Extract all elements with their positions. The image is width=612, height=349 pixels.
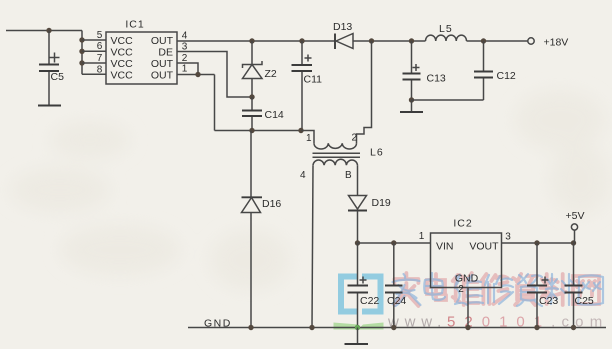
wire secondary pin3 down — [357, 165, 359, 195]
svg-text:C25: C25 — [575, 295, 594, 307]
svg-text:DE: DE — [158, 47, 173, 59]
svg-text:D13: D13 — [333, 21, 352, 33]
node pin6 — [79, 49, 84, 54]
svg-text:VCC: VCC — [111, 47, 134, 59]
node C25 top — [571, 240, 576, 245]
wire pin3 DE route — [177, 52, 252, 98]
inductor L5 — [426, 23, 467, 41]
svg-text:OUT: OUT — [151, 70, 174, 82]
svg-text:+18V: +18V — [544, 37, 569, 49]
svg-text:C11: C11 — [304, 74, 323, 86]
wire IC2 output rail — [502, 242, 574, 244]
node pin5 — [79, 37, 84, 42]
IC IC2 — [431, 218, 502, 288]
capacitor C5 — [39, 31, 64, 106]
node C25 bottom — [571, 325, 576, 330]
svg-text:C13: C13 — [427, 73, 446, 85]
wire top rail right of D13 — [353, 40, 528, 42]
node C23 top — [534, 240, 539, 245]
svg-text:C14: C14 — [265, 109, 284, 121]
svg-text:VCC: VCC — [111, 35, 134, 47]
svg-text:2: 2 — [352, 133, 358, 144]
IC IC1 — [106, 19, 177, 85]
wire pin5 stub — [82, 39, 106, 41]
svg-text:2: 2 — [458, 284, 464, 295]
svg-text:OUT: OUT — [151, 35, 174, 47]
node C23 bottom — [534, 325, 539, 330]
wire secondary pin4 down — [312, 165, 313, 327]
svg-text:8: 8 — [97, 64, 103, 75]
svg-text:7: 7 — [97, 53, 103, 64]
svg-text:IC2: IC2 — [453, 218, 472, 230]
ground bar below C5 — [38, 105, 61, 107]
capacitor C12 — [474, 41, 516, 100]
capacitor C22 — [348, 243, 380, 328]
svg-text:+5V: +5V — [566, 210, 585, 222]
capacitor C25 — [565, 243, 594, 328]
svg-text:VCC: VCC — [111, 70, 134, 82]
svg-text:1: 1 — [419, 231, 425, 242]
wire IC2 input rail — [358, 242, 431, 244]
svg-text:C23: C23 — [539, 295, 558, 307]
svg-text:VIN: VIN — [436, 241, 454, 253]
wire pin2 — [177, 63, 198, 75]
node C13 bottom — [409, 97, 414, 102]
ground below C13 — [411, 100, 413, 112]
svg-text:D16: D16 — [262, 198, 281, 210]
svg-text:L5: L5 — [439, 23, 453, 35]
svg-text:5: 5 — [97, 30, 103, 41]
node pin1/pin2 junction — [195, 72, 200, 77]
svg-text:OUT: OUT — [151, 58, 174, 70]
wire transformer pin2 riser — [357, 41, 372, 143]
capacitor C23 — [527, 243, 558, 328]
wire pin4 output top rail — [177, 40, 335, 42]
svg-text:1: 1 — [306, 133, 312, 144]
wire pin7 stub — [82, 62, 106, 64]
node Z2/C14 junction — [249, 94, 254, 99]
wire pin6 stub — [82, 50, 106, 52]
diode D16 — [242, 131, 282, 328]
transformer L6 primary — [301, 131, 358, 150]
wire top-left input — [6, 30, 82, 32]
svg-text:GND: GND — [204, 318, 232, 330]
capacitor C14 — [242, 97, 284, 131]
node D16 bottom — [248, 325, 253, 330]
node transformer pin2 riser — [369, 38, 374, 43]
capacitor C11 — [292, 41, 323, 131]
svg-text:B: B — [345, 170, 352, 181]
node primary pin1 — [298, 128, 303, 133]
node input/C5 junction — [46, 28, 51, 33]
svg-text:VCC: VCC — [111, 58, 134, 70]
watermark logo & text — [334, 273, 609, 331]
wire GND bottom rail — [188, 327, 606, 329]
node C22 bottom / ground — [355, 325, 360, 330]
ground stub below rail — [357, 328, 359, 345]
node C13/L5 — [409, 38, 414, 43]
wire VCC bus vertical — [81, 31, 83, 75]
svg-text:C12: C12 — [497, 70, 516, 82]
node IC2 GND bottom — [465, 325, 470, 330]
node C12 top — [481, 38, 486, 43]
svg-text:C22: C22 — [360, 295, 379, 307]
capacitor C13 — [403, 41, 446, 100]
svg-text:VOUT: VOUT — [469, 241, 499, 253]
transformer L6 core — [313, 153, 361, 157]
diode D19 — [348, 196, 391, 244]
node pin7 — [79, 60, 84, 65]
svg-text:C24: C24 — [387, 295, 406, 307]
svg-text:4: 4 — [300, 170, 306, 181]
node D19 bottom / C22 top — [355, 240, 360, 245]
wire pin1 — [177, 74, 215, 76]
svg-text:C5: C5 — [51, 71, 65, 83]
transformer L6 secondary — [300, 147, 384, 182]
wire pin8 stub — [82, 73, 106, 75]
svg-text:4: 4 — [182, 31, 188, 42]
svg-text:1: 1 — [182, 64, 188, 75]
svg-text:D19: D19 — [372, 197, 391, 209]
svg-text:GND: GND — [455, 273, 479, 285]
svg-text:Z2: Z2 — [265, 68, 277, 80]
capacitor C24 — [385, 243, 406, 328]
svg-text:3: 3 — [505, 232, 511, 243]
terminal +18V — [528, 37, 569, 49]
zener Z2 — [243, 41, 277, 97]
terminal +5V — [566, 210, 585, 243]
node C11 top — [299, 38, 304, 43]
svg-text:L6: L6 — [370, 147, 384, 159]
node C14 bottom — [249, 128, 254, 133]
node secondary pin4 bottom — [309, 325, 314, 330]
node C24 top — [391, 240, 396, 245]
wire low rail — [215, 130, 302, 132]
wire C13/C12 bottom link — [412, 99, 484, 101]
wire pin1 down to low rail — [214, 75, 216, 131]
node C24 bottom — [391, 325, 396, 330]
wire IC2 GND pin down — [467, 288, 469, 328]
svg-text:IC1: IC1 — [125, 19, 144, 31]
node Z2 top — [249, 38, 254, 43]
diode D13 — [333, 21, 353, 49]
svg-text:6: 6 — [97, 41, 103, 52]
faint scan mottling — [10, 90, 610, 290]
